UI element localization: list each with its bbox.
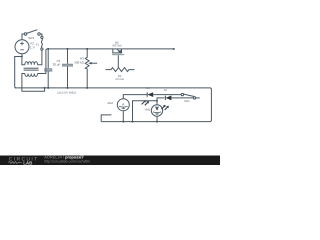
transformer core (24, 68, 39, 70)
svg-text:IRF7340: IRF7340 (112, 44, 122, 47)
M2 gate bar (112, 54, 124, 55)
svg-text:SW1: SW1 (28, 36, 35, 40)
CircuitLab logo (8, 157, 39, 166)
bottom rail (15, 88, 212, 122)
node at source-primary junction (21, 56, 23, 58)
wire source bottom / left rail down (15, 54, 22, 88)
svg-text:1 V: 1 V (30, 45, 36, 49)
M2 gate lead (117, 55, 119, 67)
switch SW3 (181, 93, 183, 95)
R3 wiper arrow (91, 62, 98, 64)
wire primary left to source bottom (22, 57, 25, 65)
voltage source V2 (15, 40, 29, 54)
VM2 top lead to D5 wire (157, 98, 164, 105)
wire SW1 to F1 (40, 34, 42, 36)
svg-text:470 kΩ: 470 kΩ (115, 78, 123, 81)
footer text (44, 155, 90, 164)
svg-text:F1: F1 (36, 42, 40, 46)
svg-text:AM4: AM4 (107, 102, 113, 105)
top rail (47, 48, 173, 50)
svg-text:V: V (156, 106, 159, 110)
transformer T1 primary (25, 62, 38, 65)
bottom rail left riser and stub (101, 115, 111, 122)
svg-text:SW3: SW3 (184, 100, 190, 103)
open end of top rail (173, 48, 175, 50)
svg-text:http://circuitlab.com/c/a7af0n: http://circuitlab.com/c/a7af0n (44, 160, 90, 164)
wire secondary left, under label, to bottom rail (22, 74, 45, 92)
svg-text:20 µF: 20 µF (53, 63, 61, 67)
wire V2 top to SW1 (22, 34, 24, 40)
ammeter AM4 (117, 99, 129, 111)
svg-text:A: A (122, 102, 125, 106)
resistor R2 (106, 68, 135, 72)
component labels (28, 36, 190, 111)
capacitor C2 (47, 49, 49, 88)
wire F1 to transformer primary right (38, 50, 42, 64)
photodiode D4 (146, 92, 148, 96)
MOSFET M2 (113, 49, 122, 53)
AM4 bottom lead (122, 111, 124, 122)
svg-text:2222-697-99922: 2222-697-99922 (57, 91, 77, 94)
VM2 bottom lead (156, 116, 158, 121)
svg-text:500 kΩ: 500 kΩ (74, 61, 84, 65)
svg-text:VM2: VM2 (145, 108, 151, 111)
capacitor C3 (67, 49, 69, 88)
svg-text:LAB: LAB (23, 160, 33, 165)
potentiometer R3 (85, 49, 89, 88)
wire from bottom rail up to VM2 branch (133, 101, 158, 122)
AM4 top lead to D4 wire (123, 95, 147, 99)
wire secondary right up to top rail (38, 49, 48, 74)
D5 light arrows (161, 105, 168, 110)
D4 light arrows (142, 100, 149, 105)
svg-text:D4: D4 (146, 87, 150, 90)
switch SW1 (24, 33, 26, 35)
photodiode D5 (164, 96, 166, 100)
fuse F1 (41, 36, 43, 38)
node secondary-left to rail (44, 87, 46, 89)
svg-text:D5: D5 (164, 89, 168, 92)
voltmeter VM2 (151, 105, 162, 116)
transformer T1 secondary (25, 74, 38, 77)
footer black bar (0, 156, 220, 166)
